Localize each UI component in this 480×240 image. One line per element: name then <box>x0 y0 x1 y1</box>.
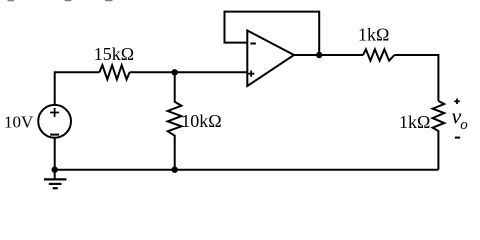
svg-text:1kΩ: 1kΩ <box>399 112 430 132</box>
wire rail to op-amp + input <box>130 71 248 73</box>
wire feedback loop <box>225 12 320 55</box>
op-amp non-inverting input label + <box>248 71 254 77</box>
wire bottom rail <box>55 169 439 171</box>
op-amp inverting input label - <box>250 43 256 45</box>
ground <box>44 170 67 189</box>
svg-text:1kΩ: 1kΩ <box>358 25 389 45</box>
label - (vo polarity) <box>455 137 460 139</box>
cropped text artifacts top edge <box>8 0 113 1</box>
wire op-amp output to R3 <box>294 54 363 56</box>
resistor R4 1kΩ load <box>433 101 445 170</box>
node output junction <box>316 52 322 58</box>
node A junction (15k/10k) <box>172 69 178 75</box>
svg-text:10kΩ: 10kΩ <box>181 111 221 131</box>
node junction (10k/bottom rail) <box>172 167 178 173</box>
resistor R3 1kΩ <box>363 49 394 60</box>
svg-text:15kΩ: 15kΩ <box>94 44 134 64</box>
svg-text:o: o <box>460 117 468 133</box>
svg-text:10V: 10V <box>4 113 34 132</box>
wire source top to rail <box>55 72 100 105</box>
wire R3 to right edge down <box>394 55 438 101</box>
wire source bottom to rail <box>54 137 56 170</box>
resistor R1 15kΩ <box>99 65 129 79</box>
node junction (source/bottom rail) <box>52 167 58 173</box>
label + (vo polarity) <box>454 99 459 104</box>
voltage source V1 <box>38 105 71 138</box>
resistor R2 10kΩ <box>168 72 182 169</box>
op-amp U1 <box>247 31 294 87</box>
